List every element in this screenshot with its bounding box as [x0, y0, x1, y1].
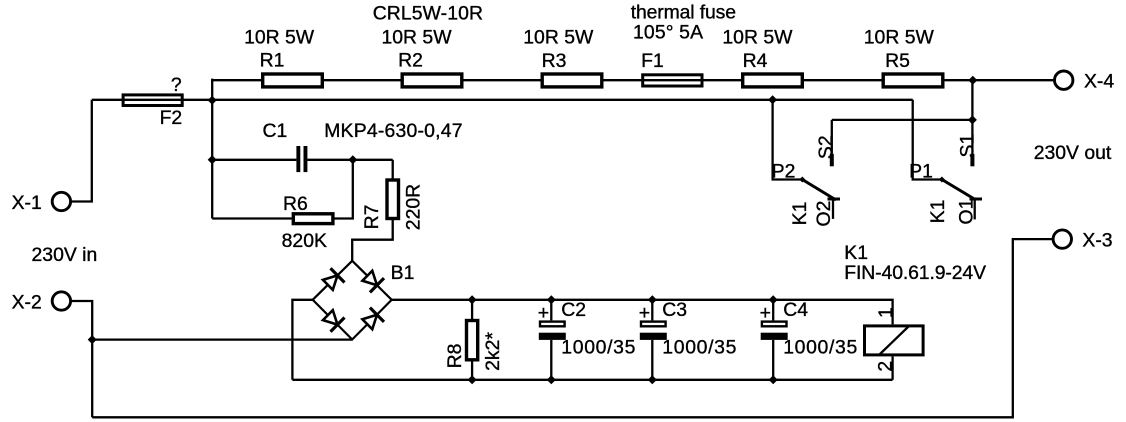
junction C3 top — [648, 295, 657, 304]
svg-text:R2: R2 — [398, 50, 423, 72]
svg-text:X-2: X-2 — [12, 292, 42, 314]
bridge B1 — [313, 261, 392, 340]
svg-text:X-4: X-4 — [1084, 71, 1114, 93]
relay coil K1 — [865, 326, 924, 355]
svg-text:F2: F2 — [160, 107, 183, 129]
svg-text:10R 5W: 10R 5W — [381, 26, 452, 48]
svg-text:F1: F1 — [641, 50, 664, 72]
junction C1 left node — [208, 155, 217, 164]
svg-text:+: + — [760, 302, 771, 324]
svg-text:X-1: X-1 — [12, 192, 42, 214]
resistor R5 — [883, 74, 943, 87]
svg-text:S2: S2 — [815, 135, 837, 159]
svg-text:105° 5A: 105° 5A — [633, 21, 703, 43]
svg-text:S1: S1 — [956, 134, 978, 158]
junction F2-node top — [208, 96, 217, 105]
svg-text:+: + — [538, 302, 549, 324]
svg-text:230V out: 230V out — [1034, 142, 1112, 164]
junction C4 top — [769, 295, 778, 304]
node S1 terminal — [970, 154, 974, 167]
svg-text:230V in: 230V in — [32, 244, 98, 266]
wire top dc rail — [392, 300, 893, 325]
wire R7 bottom to bridge — [352, 220, 393, 261]
wire bridge minus — [292, 300, 312, 380]
resistor R1 — [263, 74, 323, 87]
relay contact K1 right blade — [942, 180, 976, 201]
junction X-2 branch — [88, 335, 97, 344]
svg-text:C1: C1 — [263, 120, 288, 142]
junction C1 right node — [348, 155, 357, 164]
svg-text:C3: C3 — [662, 299, 687, 321]
wire X-1 lead — [72, 100, 92, 202]
svg-text:K1: K1 — [927, 200, 949, 224]
node O2 terminal — [832, 200, 834, 219]
diode B1 bottom-left — [321, 308, 345, 332]
svg-text:P1: P1 — [909, 161, 933, 183]
terminal X-4 — [1055, 71, 1073, 89]
pivot P2 — [799, 177, 805, 183]
resistor R3 — [542, 74, 602, 87]
svg-text:R1: R1 — [260, 50, 285, 72]
resistor R7 — [387, 180, 399, 219]
wire R8 top — [471, 300, 473, 319]
svg-text:+: + — [639, 302, 650, 324]
svg-text:1000/35: 1000/35 — [783, 337, 857, 359]
svg-text:1: 1 — [875, 307, 897, 318]
svg-text:820K: 820K — [282, 230, 327, 252]
svg-text:B1: B1 — [391, 262, 415, 284]
svg-text:K1: K1 — [844, 242, 868, 264]
svg-text:2: 2 — [875, 361, 897, 372]
svg-text:10R 5W: 10R 5W — [722, 26, 793, 48]
wire C1 left — [211, 159, 296, 161]
svg-text:O2: O2 — [813, 201, 835, 227]
svg-text:C2: C2 — [561, 299, 586, 321]
svg-text:R7: R7 — [361, 205, 383, 230]
capacitor C4 — [762, 322, 787, 327]
wire R6 branch — [212, 217, 292, 219]
svg-text:220R: 220R — [402, 184, 424, 230]
capacitor C2 — [540, 322, 565, 327]
svg-text:1000/35: 1000/35 — [662, 337, 736, 359]
junction S wire node — [968, 115, 977, 124]
terminal X-3 — [1053, 230, 1071, 248]
node O1 terminal — [974, 200, 976, 220]
wire R8 bottom — [471, 361, 473, 380]
wire bottom dc rail — [292, 379, 892, 381]
svg-text:MKP4-630-0,47: MKP4-630-0,47 — [324, 120, 462, 142]
diode B1 top-right — [360, 269, 384, 293]
svg-text:R8: R8 — [444, 344, 466, 369]
wire C3 leads — [651, 300, 653, 321]
svg-text:R5: R5 — [885, 50, 910, 72]
svg-text:2k2*: 2k2* — [482, 332, 504, 371]
diode B1 bottom-right — [360, 308, 384, 332]
wire P1 branch — [913, 100, 942, 180]
wire S1 vertical — [971, 80, 973, 154]
junction X-4 node — [968, 76, 977, 85]
svg-text:X-3: X-3 — [1082, 230, 1112, 252]
wire X-2 to bridge — [92, 338, 352, 340]
junction C2 bottom — [547, 375, 556, 384]
fuse F2 — [123, 95, 182, 106]
resistor R4 — [743, 74, 803, 87]
resistor R2 — [402, 74, 462, 87]
fuse F1 — [643, 75, 702, 86]
svg-text:R3: R3 — [542, 50, 567, 72]
wire neutral bottom — [92, 239, 1053, 417]
junction C4 bottom — [769, 375, 778, 384]
terminal X-2 — [52, 292, 70, 310]
node S2 terminal — [830, 154, 834, 167]
resistor R8 — [467, 321, 478, 360]
wire P2 branch — [773, 100, 803, 180]
wire coil bottom pin — [891, 356, 893, 379]
wire R7 top — [392, 160, 394, 180]
terminal X-1 — [52, 192, 70, 210]
wire left vertical node — [211, 79, 213, 219]
svg-text:1000/35: 1000/35 — [561, 337, 635, 359]
diode B1 top-left — [321, 268, 345, 292]
svg-text:O1: O1 — [956, 199, 978, 225]
wire top rail — [211, 79, 1054, 81]
svg-text:K1: K1 — [789, 202, 811, 226]
junction C3 bottom — [648, 375, 657, 384]
pivot P1 — [939, 177, 945, 183]
junction C2 top — [547, 295, 556, 304]
junction R8 top — [468, 295, 477, 304]
wire R6 to C1 node — [334, 160, 352, 219]
svg-text:FIN-40.61.9-24V: FIN-40.61.9-24V — [844, 262, 986, 284]
capacitor C3 — [641, 322, 666, 327]
svg-text:P2: P2 — [772, 160, 796, 182]
svg-text:R6: R6 — [283, 193, 308, 215]
wire C4 leads — [772, 300, 774, 321]
wire C1 right — [307, 159, 392, 161]
junction R8 bottom — [468, 375, 477, 384]
relay contact K1 left blade — [802, 180, 836, 201]
svg-text:C4: C4 — [783, 299, 808, 321]
svg-text:R4: R4 — [743, 50, 768, 72]
svg-text:?: ? — [171, 74, 182, 96]
svg-text:10R 5W: 10R 5W — [864, 26, 935, 48]
junction P2 branch — [768, 95, 777, 104]
svg-text:10R 5W: 10R 5W — [244, 26, 315, 48]
resistor R6 — [293, 214, 333, 224]
wire S wire — [832, 119, 973, 121]
wire X-2 lead — [72, 301, 92, 417]
svg-text:thermal fuse: thermal fuse — [631, 2, 736, 24]
capacitor C1 — [296, 146, 300, 172]
wire C2 leads — [550, 300, 552, 321]
wire mains rail — [92, 99, 913, 101]
svg-text:10R 5W: 10R 5W — [523, 26, 594, 48]
wire S2 vertical — [831, 120, 833, 154]
svg-text:CRL5W-10R: CRL5W-10R — [373, 3, 483, 25]
